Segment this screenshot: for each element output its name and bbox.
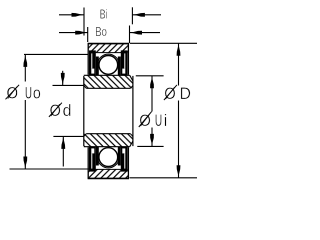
svg-text:d: d [63,101,72,120]
diameter slash overlay Uo [6,85,20,100]
dimension Bi: right extension line [131,7,133,24]
outer ring right face lines [127,44,129,75]
dimension Ui: bottom extension line [137,145,163,147]
dimension Bo: left extension line [87,27,89,42]
diameter slash overlay d [49,103,62,117]
dimension Bi: left line and arrow [59,13,84,17]
cage bits beside bottom ball [96,147,99,166]
dimension d: top arrow segment [61,71,65,86]
diameter slash overlay Ui [139,112,152,127]
label D background [163,86,192,101]
inner ring left face silhouette line [83,76,85,146]
diameter slash overlay D [164,85,177,100]
outer ring bottom band (hatched) [88,169,129,178]
dimension Ui: dim line with arrows [150,76,154,147]
dimension Bo: right line and arrow [130,31,161,35]
dimension D: bottom extension line [130,177,198,179]
dimension Bi: right line and arrow [132,13,161,17]
outer ring left face lines [87,44,89,75]
svg-text:i: i [164,111,168,130]
outer raceway groove arc (bottom) [98,159,120,168]
svg-text:Ø: Ø [139,111,151,130]
label Ui background [138,112,168,128]
outer ring top band (hatched) [88,44,129,53]
dimension Ui: top extension line [136,75,164,77]
bottom seal left (black) [89,147,96,172]
svg-text:Ø: Ø [7,83,19,102]
dimension d: bottom arrow segment [61,136,65,166]
dimension d: top extension line [53,84,84,86]
dimension D: top extension line [130,42,197,44]
outer raceway groove arc (top) [98,54,120,63]
cage bits beside top ball [96,57,99,76]
inner ring top band (hatched) [84,75,133,88]
svg-text:U: U [25,83,32,102]
inner ring bottom band (hatched) [84,134,133,147]
ball (top) [99,56,118,75]
bottom seal right (black) [121,147,128,172]
label Uo background [3,82,43,101]
top seal left (black) [89,50,96,75]
dimension Bi: left extension line [83,8,85,36]
svg-text:D: D [180,84,191,103]
ball (bottom) [99,148,118,167]
dimension Uo: dim line with arrows [23,54,27,169]
dimension Bo: right extension line [129,26,131,44]
dimension Bo: left line and arrow [59,31,88,35]
dimension Uo: top extension line [24,53,88,55]
svg-text:Bi: Bi [100,6,108,21]
inner ring right face silhouette line [132,76,134,146]
top seal right (black) [121,50,128,75]
svg-text:Bo: Bo [95,24,107,39]
dimension Uo: bottom extension line [10,168,90,170]
svg-text:U: U [155,111,163,130]
dimension D: dim line with arrows [177,43,181,178]
dimension d: bottom extension line [53,135,83,137]
svg-text:o: o [33,83,41,102]
